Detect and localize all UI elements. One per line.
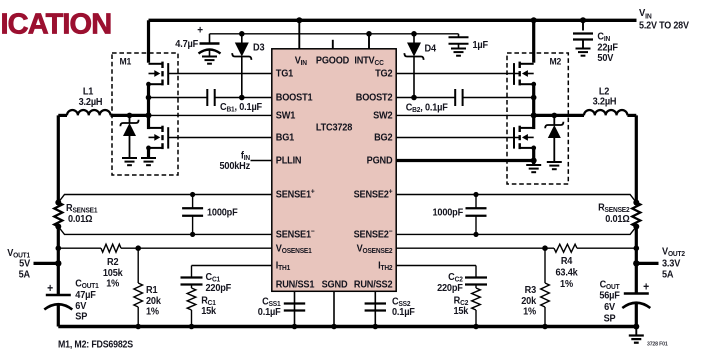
svg-text:M1, M2: FDS6982S: M1, M2: FDS6982S — [58, 339, 133, 350]
capacitor CB2 and BOOST2 wire — [396, 89, 534, 106]
wire L2 corner to RSENSE2 vertical — [635, 115, 638, 202]
inductor L2 — [534, 110, 637, 115]
svg-text:ICATION: ICATION — [1, 9, 112, 41]
wire M2 bottom source to ground — [532, 148, 535, 165]
inductor L1 — [58, 110, 148, 115]
svg-text:VIN​: VIN​ — [639, 7, 652, 20]
label D3 — [253, 42, 265, 54]
schottky diode at M2 — [545, 113, 563, 162]
svg-text:3728 F01: 3728 F01 — [647, 341, 668, 347]
wire SENSE2- line — [396, 227, 636, 235]
svg-text:500kHz: 500kHz — [219, 160, 250, 172]
node BOOST1 at M1 — [146, 95, 152, 101]
svg-text:SW1: SW1 — [276, 110, 296, 122]
svg-text:0.01Ω: 0.01Ω — [605, 213, 630, 225]
wire SW2 to IC — [396, 114, 534, 116]
svg-text:D4: D4 — [425, 42, 437, 54]
svg-text:R4: R4 — [561, 255, 573, 267]
capacitor CIN — [573, 17, 593, 55]
node BOOST2 at M2 — [531, 95, 537, 101]
svg-text:CB1​, 0.1µF: CB1​, 0.1µF — [220, 101, 262, 113]
svg-text:SW2: SW2 — [373, 110, 392, 122]
svg-text:SENSE2−​: SENSE2−​ — [354, 228, 393, 241]
svg-text:0.1µF: 0.1µF — [258, 306, 281, 318]
INTVCC rail wire — [210, 33, 459, 35]
svg-text:M1: M1 — [120, 56, 132, 67]
wire VIN pin to rail — [296, 17, 302, 49]
label RSENSE2 0.01ohm — [598, 202, 630, 225]
wire TG2 — [396, 73, 519, 75]
wire VOUT1 stub — [34, 262, 59, 265]
capacitor 1000pF right — [466, 192, 487, 237]
svg-text:15k: 15k — [201, 305, 217, 317]
svg-text:47µF: 47µF — [75, 289, 96, 301]
wire VIN rail corner to M1 top drain — [147, 20, 150, 62]
label D4 — [425, 42, 437, 54]
svg-text:5V: 5V — [19, 258, 31, 270]
svg-text:+: + — [47, 282, 53, 295]
node VOUT1 — [55, 260, 61, 266]
svg-text:3.2µH: 3.2µH — [593, 96, 617, 108]
resistor R3 — [541, 248, 550, 329]
label CIN 22uF 50V — [597, 31, 618, 64]
capacitor 4.7uF INTVCC — [199, 34, 221, 57]
svg-text:50V: 50V — [597, 52, 613, 64]
svg-text:RUN/SS1: RUN/SS1 — [276, 279, 315, 291]
svg-text:BG1: BG1 — [276, 132, 295, 144]
svg-text:56µF: 56µF — [599, 290, 620, 302]
label 4.7uF and plus — [175, 24, 203, 49]
svg-text:SENSE2+​: SENSE2+​ — [354, 188, 393, 201]
svg-text:4.7µF: 4.7µF — [175, 38, 198, 50]
label CC2 220pF — [437, 271, 463, 294]
svg-text:0.01Ω: 0.01Ω — [68, 213, 93, 225]
transistor M2 dashed box — [507, 53, 568, 184]
svg-text:VOUT2​: VOUT2​ — [662, 246, 685, 258]
svg-text:BG2: BG2 — [374, 132, 392, 144]
label CB1 0.1uF — [220, 101, 262, 113]
wire SENSE2+ line — [396, 195, 636, 203]
label VOUT2 3.3V 5A — [662, 246, 685, 280]
label CSS2 0.1uF — [392, 296, 415, 318]
svg-text:BOOST2: BOOST2 — [356, 92, 393, 104]
svg-text:TG1: TG1 — [276, 68, 294, 80]
capacitor 1000pF left — [182, 192, 203, 237]
label R4 63.4k 1% — [555, 255, 578, 290]
wire PGOOD stub — [332, 40, 334, 49]
svg-text:SP: SP — [604, 312, 617, 324]
wire VIN rail to M2 top drain — [531, 17, 537, 62]
label RC2 15k — [453, 295, 469, 317]
svg-text:TG2: TG2 — [375, 68, 392, 80]
svg-text:D3: D3 — [253, 42, 265, 54]
capacitor CSS2 on RUN/SS2 — [365, 291, 386, 329]
diode D4 — [404, 31, 423, 100]
IC U1 LTC3728 — [272, 49, 396, 291]
svg-text:CB2​, 0.1µF: CB2​, 0.1µF — [406, 102, 448, 114]
node R2 junction on output — [56, 245, 62, 251]
svg-text:220pF: 220pF — [437, 282, 463, 294]
label CC1 220pF — [206, 271, 232, 294]
label L2 3.2uH — [593, 86, 617, 108]
wire BG2 — [396, 137, 519, 139]
svg-text:+: + — [643, 281, 649, 294]
label L1 3.2uH — [79, 86, 103, 108]
svg-text:PGND: PGND — [367, 155, 393, 167]
label M2 — [550, 56, 562, 67]
wire TG1 — [168, 73, 272, 75]
capacitor CSS1 on RUN/SS1 — [284, 291, 305, 329]
label fIN 500kHz — [219, 149, 250, 171]
schottky diode at M1 — [120, 113, 138, 158]
svg-text:5.2V TO 28V: 5.2V TO 28V — [639, 20, 690, 32]
wire VOUT2 stub — [636, 262, 658, 265]
svg-text:6V: 6V — [604, 301, 616, 313]
wire RSENSE1 to VOUT1 node — [57, 227, 60, 264]
svg-text:1%: 1% — [146, 306, 159, 318]
note 3728 F01 — [647, 341, 668, 347]
svg-text:3.2µH: 3.2µH — [79, 96, 103, 108]
svg-text:PGOOD: PGOOD — [316, 55, 349, 67]
capacitor CB1 and BOOST1 wire — [149, 89, 272, 106]
label CSS1 0.1uF — [258, 296, 281, 318]
svg-text:RUN/SS2: RUN/SS2 — [354, 279, 392, 291]
svg-text:1%: 1% — [106, 278, 119, 290]
label R2 105k 1% — [103, 256, 123, 289]
ground M1 schottky — [122, 158, 137, 165]
resistor R1 — [134, 248, 143, 329]
label CB2 0.1uF — [406, 102, 448, 114]
wire SW1 to IC — [149, 114, 272, 116]
resistor RSENSE2 — [632, 200, 640, 230]
svg-text:SENSE1+​: SENSE1+​ — [276, 188, 315, 201]
svg-text:SP: SP — [75, 311, 88, 323]
svg-text:1%: 1% — [560, 278, 573, 290]
svg-text:1000pF: 1000pF — [432, 207, 463, 219]
ground rail bottom — [58, 325, 636, 328]
wire INTVCC pin to INTVCC rail — [366, 31, 372, 49]
label RC1 15k — [201, 295, 217, 317]
node SW2 junction — [531, 112, 537, 118]
svg-text:5A: 5A — [19, 268, 31, 280]
wire SENSE1+ line — [58, 195, 271, 203]
svg-text:0.1µF: 0.1µF — [392, 306, 415, 318]
label 1000pF right — [432, 207, 463, 219]
wire PLLIN stub — [251, 160, 272, 162]
label RSENSE1 0.01ohm — [66, 202, 98, 225]
label 1000pF left — [207, 207, 238, 219]
label COUT 56uF 6V SP — [599, 279, 620, 324]
label M1 — [120, 56, 132, 67]
ground M2 schottky — [547, 162, 562, 169]
ground symbol main — [629, 324, 644, 343]
wire SENSE1- line — [58, 227, 271, 235]
wire M1 node source to SW to bottom drain — [147, 84, 150, 129]
wire RSENSE2 to VOUT2 node — [635, 227, 638, 264]
wire SGND — [331, 291, 337, 329]
wire L1 to RSENSE1 vertical — [57, 115, 60, 202]
svg-text:R2: R2 — [107, 256, 118, 268]
svg-text:SGND: SGND — [322, 279, 348, 291]
svg-text:15k: 15k — [453, 305, 469, 317]
capacitor CC1 resistor RC1 on ITH1 — [181, 266, 272, 330]
diode D3 — [232, 31, 251, 100]
ground M2 source — [526, 165, 541, 172]
transistor M1 dashed box — [112, 53, 178, 175]
svg-text:220pF: 220pF — [206, 282, 232, 294]
svg-text:R3: R3 — [525, 284, 537, 296]
label R3 20k 1% — [521, 284, 537, 317]
svg-text:PLLIN: PLLIN — [276, 155, 302, 167]
mosfet M1 bottom — [146, 126, 168, 151]
mosfet M2 top — [514, 62, 536, 87]
svg-text:63.4k: 63.4k — [555, 267, 578, 279]
capacitor 1uF INTVCC bypass — [449, 34, 469, 56]
wire M1 bottom source to ground — [147, 148, 150, 158]
label plus COUT1 — [47, 282, 53, 295]
wire PGND — [396, 158, 537, 164]
ground M1 source — [141, 158, 156, 165]
svg-text:1%: 1% — [523, 306, 536, 318]
svg-text:SENSE1−​: SENSE1−​ — [276, 228, 315, 241]
node VOUT2 — [633, 260, 639, 266]
label VOUT1 5V 5A — [7, 247, 30, 280]
svg-text:5A: 5A — [662, 269, 674, 281]
capacitor COUT right — [622, 263, 650, 326]
svg-text:LTC3728: LTC3728 — [316, 122, 353, 134]
resistor R4 and VOSENSE2 wire — [396, 244, 639, 252]
svg-text:RSENSE2​: RSENSE2​ — [598, 202, 630, 214]
capacitor COUT1 — [44, 263, 72, 326]
capacitor CC2 resistor RC2 on ITH2 — [396, 266, 487, 330]
mosfet M2 bottom — [514, 126, 536, 151]
svg-text:BOOST1: BOOST1 — [276, 92, 313, 104]
svg-text:+: + — [197, 24, 203, 36]
svg-text:R1: R1 — [146, 284, 158, 296]
resistor R2 and VOSENSE1 wire — [58, 244, 271, 252]
label COUT1 47uF 6V SP — [75, 278, 99, 323]
label plus COUT — [643, 281, 649, 294]
ground 4.7uF — [202, 57, 217, 64]
node SW1 junction — [146, 112, 152, 118]
svg-text:3.3V: 3.3V — [662, 258, 681, 270]
node VIN label — [639, 7, 690, 31]
wire M2 node source to SW to bottom drain — [532, 84, 535, 129]
label R1 20k 1% — [146, 284, 162, 317]
VIN rail — [149, 19, 637, 22]
resistor RSENSE1 — [54, 200, 62, 230]
mosfet M1 top — [146, 62, 168, 87]
svg-text:1µF: 1µF — [473, 39, 489, 51]
svg-text:M2: M2 — [550, 56, 562, 67]
wire BG1 — [168, 137, 272, 139]
label 1uF — [473, 39, 489, 51]
header TYPICAL APPLICATION (cropped) — [1, 9, 112, 41]
svg-text:1000pF: 1000pF — [207, 207, 238, 219]
note M1 M2 FDS6982S — [58, 339, 133, 350]
